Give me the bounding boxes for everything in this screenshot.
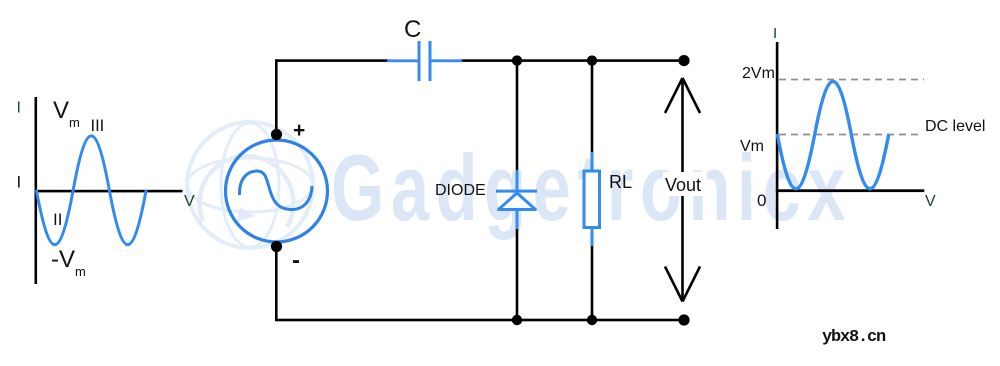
- junction dot bottom diode node: [512, 315, 522, 325]
- svg-text:0: 0: [757, 191, 766, 210]
- svg-text:RL: RL: [609, 172, 632, 192]
- wire diode branch upper: [516, 61, 519, 173]
- junction dot top diode node: [512, 55, 522, 65]
- wire RL branch upper: [591, 61, 594, 155]
- junction dot bottom right end: [678, 314, 689, 325]
- svg-text:-: -: [292, 247, 300, 274]
- svg-text:DC level: DC level: [925, 118, 985, 135]
- watermark Gadgetronicx: [331, 137, 852, 241]
- svg-text:Vm: Vm: [740, 138, 764, 155]
- capacitor C1 right plate: [429, 41, 432, 81]
- dashed line 2Vm level: [779, 79, 924, 81]
- junction dot top right end: [678, 55, 689, 66]
- svg-text:C: C: [404, 16, 421, 43]
- capacitor C1 left plate: [418, 41, 421, 81]
- wire top horizontal right: [460, 59, 685, 62]
- AC source sine symbol: [239, 171, 312, 210]
- svg-text:II: II: [53, 210, 62, 229]
- input sine waveform: [37, 136, 147, 245]
- capacitor C1 blue leads: [387, 59, 418, 62]
- wire top horizontal left: [275, 59, 389, 62]
- junction dot top RL node: [587, 55, 597, 65]
- svg-text:Vm: Vm: [53, 97, 80, 130]
- svg-text:III: III: [91, 117, 105, 135]
- AC source V1: [226, 140, 328, 242]
- svg-text:V: V: [925, 193, 936, 210]
- wire source bottom vertical: [275, 246, 278, 321]
- source bottom junction dot: [271, 241, 282, 252]
- source top junction dot: [271, 129, 282, 140]
- wire RL branch lower: [591, 245, 594, 320]
- left graph vertical axis: [35, 97, 38, 284]
- svg-text:-Vm: -Vm: [51, 246, 86, 279]
- wire bottom horizontal: [275, 319, 685, 322]
- Vout double arrow: [665, 78, 700, 302]
- diode D1: [496, 170, 537, 229]
- left graph horizontal axis: [35, 190, 183, 193]
- right graph vertical axis: [776, 42, 779, 229]
- svg-text:ybx8.cn: ybx8.cn: [822, 328, 886, 347]
- dashed line Vm DC level: [779, 134, 922, 136]
- resistor RL: [584, 152, 600, 246]
- svg-text:+: +: [293, 119, 305, 142]
- right graph horizontal axis: [776, 189, 925, 192]
- junction dot bottom RL node: [587, 315, 597, 325]
- output waveform: [778, 82, 889, 189]
- svg-text:I: I: [17, 100, 21, 117]
- svg-text:DIODE: DIODE: [435, 182, 486, 199]
- wire diode branch lower: [516, 228, 519, 320]
- svg-text:I: I: [17, 173, 22, 192]
- svg-text:Vout: Vout: [665, 175, 701, 195]
- svg-text:2Vm: 2Vm: [742, 65, 775, 82]
- label Vout: [663, 172, 707, 196]
- svg-text:V: V: [184, 193, 195, 210]
- svg-text:I: I: [773, 25, 777, 42]
- watermark swirl logo: [187, 122, 313, 248]
- wire source top vertical: [275, 59, 278, 135]
